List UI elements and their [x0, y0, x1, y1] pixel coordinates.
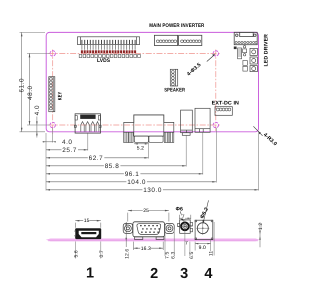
detail 2 dim 12.6	[125, 222, 127, 247]
svg-text:4: 4	[204, 266, 212, 282]
dimension 4.0 bottom	[43, 141, 54, 143]
detail 4 dim 9.0	[195, 243, 211, 245]
inverter connector CN1 pins	[156, 40, 176, 43]
VGA screw posts	[124, 132, 174, 142]
LED driver pads column	[243, 46, 248, 72]
detail 3 dim 7	[179, 215, 190, 220]
svg-text:LED DRIVER: LED DRIVER	[264, 34, 270, 67]
svg-text:EXT-DC IN: EXT-DC IN	[212, 101, 239, 107]
detail 1 HDMI tongue	[81, 232, 96, 234]
svg-text:4.0: 4.0	[62, 139, 73, 146]
left extension lines	[20, 32, 50, 131]
LVDS pins	[82, 40, 135, 44]
detail 2 VGA D-shell	[137, 224, 161, 235]
HDMI connector top view	[75, 114, 100, 133]
svg-text:SPEAKER: SPEAKER	[164, 87, 185, 93]
inverter connector CN2 pins	[181, 40, 201, 43]
svg-text:LVDS: LVDS	[97, 58, 111, 64]
svg-text:12.6: 12.6	[125, 249, 131, 259]
detail 3 jack ring	[181, 222, 189, 230]
svg-text:7.5: 7.5	[164, 252, 170, 259]
svg-text:61.0: 61.0	[19, 78, 26, 93]
dimension 4.0 left	[36, 117, 38, 138]
svg-text:1: 1	[86, 265, 94, 281]
LVDS solder pads row	[81, 50, 136, 53]
mounting hole bottom-left	[50, 122, 55, 127]
detail 4 corner keys	[195, 220, 213, 239]
hole callout 4-dia3.5 leader	[207, 55, 215, 62]
LVDS connector housing	[78, 37, 140, 45]
detail 2 VGA pins	[140, 225, 160, 233]
HDMI shield band	[80, 115, 95, 119]
svg-text:104.0: 104.0	[127, 179, 146, 186]
mounting hole top-left	[50, 51, 55, 56]
svg-text:KEY: KEY	[58, 91, 64, 100]
HDMI side tabs	[74, 116, 101, 128]
dimension 25.7	[46, 149, 88, 151]
centerline horizontal top holes	[49, 52, 221, 54]
EXT-DC IN pins	[216, 108, 230, 111]
LED driver component D1	[234, 47, 237, 50]
svg-text:2: 2	[150, 266, 158, 282]
detail 4 barrel circle	[197, 223, 208, 234]
detail 4 DC jack body	[195, 220, 213, 239]
KEY connector	[49, 77, 55, 112]
svg-text:7: 7	[185, 240, 188, 246]
bottom extension lines	[46, 128, 259, 191]
detail edge dim 1.2	[259, 222, 261, 247]
detail 1 HDMI body	[75, 228, 101, 239]
LVDS through-hole row	[79, 54, 140, 57]
svg-text:3: 3	[180, 266, 188, 282]
VGA connector top view flange	[124, 115, 174, 136]
dimension 61.0	[21, 32, 23, 131]
detail 3 lower extension lines	[185, 234, 190, 256]
svg-text:96.1: 96.1	[125, 171, 140, 178]
inverter connector CN1	[154, 35, 201, 45]
detail 2 screw lug right	[165, 223, 174, 233]
detail 4 lower extension lines	[195, 222, 214, 256]
LED driver inductor L1 hatched	[238, 48, 242, 59]
HDMI pin legs	[81, 122, 99, 132]
SPEAKER pins	[172, 71, 175, 86]
svg-text:0.7: 0.7	[99, 250, 105, 257]
detail 2 right dims 7.5 6.3	[165, 225, 174, 256]
EXT-DC IN connector	[215, 107, 232, 116]
svg-text:MAIN POWER INVERTER: MAIN POWER INVERTER	[149, 23, 204, 29]
LVDS pin legs	[82, 45, 135, 50]
KEY connector pins	[50, 78, 53, 110]
detail 2 dim 16.3	[134, 242, 164, 250]
svg-text:48.0: 48.0	[27, 85, 34, 100]
dimension 62.7	[46, 157, 148, 159]
svg-text:5.2: 5.2	[137, 146, 144, 152]
dimension 85.8	[46, 165, 186, 167]
centerline vertical left holes	[52, 50, 54, 135]
SPEAKER connector	[170, 69, 177, 86]
centerline horizontal bottom holes	[49, 124, 221, 126]
LED driver output pads	[250, 48, 257, 71]
board outline	[46, 32, 258, 131]
svg-text:16.3: 16.3	[141, 246, 151, 252]
svg-text:62.7: 62.7	[89, 155, 104, 162]
detail 1 lower extension lines	[75, 242, 101, 259]
LED input connector housing	[234, 32, 257, 44]
dimension 130.0	[46, 189, 259, 191]
detail 3 audio jack side tabs	[178, 222, 193, 231]
svg-text:130.0: 130.0	[143, 187, 162, 194]
detail 3 audio jack body	[180, 220, 191, 233]
svg-text:25.7: 25.7	[62, 147, 77, 154]
detail 4 crosshair	[196, 227, 209, 229]
dimension 5.2	[134, 143, 148, 145]
detail 2 screw lug left	[123, 223, 132, 233]
dimension 104.0	[46, 181, 216, 183]
svg-text:5.6: 5.6	[74, 250, 80, 257]
detail 3 crosshair	[177, 225, 192, 227]
svg-text:7: 7	[182, 214, 185, 220]
svg-text:6.5: 6.5	[189, 252, 195, 259]
dimension 96.1	[46, 173, 203, 175]
corner callout 4-R3.0 leader	[253, 126, 262, 136]
svg-text:11: 11	[209, 251, 215, 257]
VGA bottom feet	[134, 136, 163, 142]
detail panel edge band	[46, 239, 260, 242]
audio jack top view	[181, 110, 193, 135]
detail 1 dim 15	[75, 221, 101, 228]
mounting hole bottom-right	[213, 122, 218, 127]
svg-text:85.8: 85.8	[105, 163, 120, 170]
detail 2 feet	[135, 237, 164, 240]
svg-text:6.3: 6.3	[171, 252, 177, 259]
svg-text:1.2: 1.2	[258, 223, 264, 230]
detail 2 VGA body	[133, 222, 165, 237]
svg-text:Φ6: Φ6	[176, 206, 183, 212]
mounting hole top-right	[213, 51, 218, 56]
DC jack top view	[195, 108, 210, 132]
svg-text:15: 15	[84, 218, 90, 224]
dimension 48.0	[29, 53, 31, 125]
svg-text:4.0: 4.0	[34, 105, 41, 116]
detail 2 dim 25	[128, 211, 169, 222]
svg-text:25: 25	[143, 208, 149, 214]
centerline vertical right holes	[215, 50, 217, 132]
svg-text:9.0: 9.0	[199, 245, 206, 251]
LED input connector pin row	[235, 41, 257, 43]
